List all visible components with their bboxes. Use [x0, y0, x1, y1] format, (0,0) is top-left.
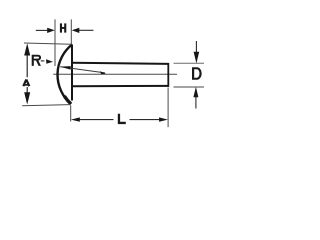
- H right arrow: [79, 29, 94, 31]
- R leader line: [41, 60, 45, 62]
- A bottom arrowhead: [24, 92, 30, 104]
- label H: [60, 23, 66, 32]
- L left arrowhead: [71, 117, 80, 121]
- label D: [192, 67, 202, 79]
- label R: [32, 55, 41, 66]
- H right extension line: [70, 19, 72, 44]
- D lower arrowhead: [193, 87, 198, 98]
- A top extension line: [24, 43, 72, 44]
- shank bottom edge: [72, 85, 169, 87]
- L dimension line left: [79, 119, 114, 121]
- D upper arrowhead: [194, 52, 200, 64]
- radius construction line: [60, 67, 105, 73]
- dome arc lower swell: [64, 96, 71, 104]
- D lower dimension line: [195, 97, 197, 109]
- A dimension line lower: [26, 87, 28, 93]
- radius line end arrow: [100, 71, 106, 74]
- rivet head face: [71, 45, 73, 101]
- centerline: [53, 73, 177, 75]
- L right arrowhead: [159, 117, 168, 121]
- L right extension line: [167, 88, 169, 128]
- A bottom extension line: [22, 105, 70, 106]
- rivet head dome arc: [58, 44, 73, 104]
- H left extension line: [54, 19, 56, 66]
- D upper dimension line: [195, 41, 197, 53]
- shank end cap: [167, 63, 169, 87]
- A dimension line upper: [26, 54, 28, 77]
- L left extension line: [70, 105, 72, 121]
- H left arrow: [36, 29, 48, 31]
- label A: [23, 80, 29, 87]
- D top extension line: [174, 62, 205, 64]
- D bottom extension line: [174, 86, 205, 88]
- L dimension line right: [130, 119, 161, 121]
- shank top edge: [72, 63, 169, 64]
- label L: [118, 114, 126, 124]
- A top arrowhead: [24, 43, 30, 55]
- R leader arrow: [46, 59, 53, 64]
- radius leader arrowhead (points left at dome inner surface): [60, 66, 71, 70]
